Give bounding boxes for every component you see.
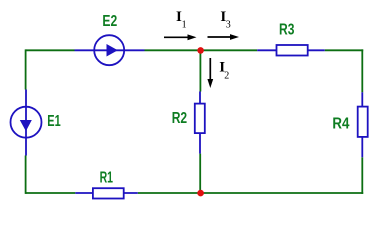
- svg-text:E2: E2: [102, 13, 117, 30]
- current arrow I1: [164, 34, 197, 40]
- svg-text:1: 1: [182, 19, 187, 30]
- current source E1: [11, 90, 42, 156]
- resistor R1: [75, 188, 138, 198]
- wire middle vertical upper (node A to R2 lead): [199, 50, 201, 91]
- node B (bottom junction): [197, 190, 204, 197]
- svg-text:2: 2: [224, 70, 229, 81]
- wire top-left (corner to E2): [26, 49, 75, 51]
- wire top-right (R3 to corner): [325, 49, 364, 51]
- current source E2: [75, 35, 145, 65]
- resistor R3: [257, 45, 325, 56]
- wire top-middle (E2 to node A): [145, 49, 258, 51]
- wire right vertical lower (R4 lead to bottom corner): [361, 157, 363, 194]
- wire left vertical lower (E1 lead to bottom corner): [25, 156, 27, 194]
- resistor R4: [358, 92, 368, 157]
- svg-text:R2: R2: [172, 110, 187, 127]
- svg-text:E1: E1: [47, 113, 60, 130]
- resistor R2: [195, 92, 205, 154]
- wire bottom-left (corner to R1 lead): [26, 192, 76, 194]
- wire left vertical upper (corner to E1 lead): [25, 49, 27, 89]
- wire right vertical upper (corner to R4 lead): [361, 49, 363, 92]
- svg-text:R1: R1: [100, 170, 113, 187]
- node A (top junction): [197, 47, 204, 54]
- svg-text:R3: R3: [279, 21, 294, 38]
- svg-text:3: 3: [226, 19, 231, 30]
- svg-text:R4: R4: [332, 116, 349, 133]
- current arrow I2: [207, 58, 213, 88]
- wire bottom-right (R1 lead to corner): [138, 192, 363, 194]
- wire middle vertical lower (R2 lead to node B): [199, 154, 201, 193]
- current arrow I3: [208, 34, 240, 40]
